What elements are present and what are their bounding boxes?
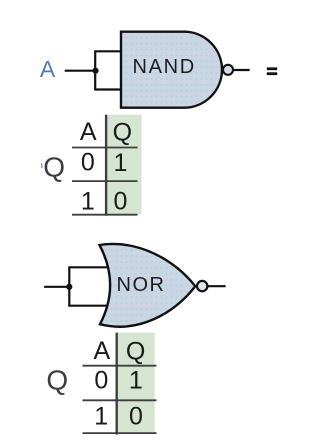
wire NOR bottom input [68, 305, 108, 307]
truth table NOR row1 A=0 [94, 367, 108, 395]
cursor artifact blue tick [41, 163, 43, 168]
truth table NAND vertical line [105, 115, 107, 216]
wire NOR output [207, 285, 225, 287]
svg-text:0: 0 [94, 367, 108, 395]
svg-text:Q: Q [46, 364, 68, 395]
svg-text:1: 1 [129, 367, 143, 395]
truth table NOR row2 Q=0 [129, 403, 143, 431]
truth table NOR bottom line [83, 432, 157, 434]
wire input A [65, 70, 97, 72]
truth table NOR vertical line [115, 333, 117, 435]
node Q label NAND [43, 151, 65, 182]
svg-text:1: 1 [114, 149, 128, 177]
NAND gate U1 [121, 32, 222, 108]
junction NOR input [66, 284, 72, 290]
truth table NOR header Q [126, 337, 145, 365]
svg-text:A: A [94, 337, 111, 365]
truth table NOR header line [83, 365, 157, 367]
truth table NAND header A [80, 118, 97, 146]
svg-text:1: 1 [94, 403, 108, 431]
svg-text:0: 0 [81, 149, 95, 177]
truth table NAND header line [72, 147, 138, 149]
truth table NAND bottom line [72, 214, 138, 216]
wire NOR branch vertical [68, 267, 70, 305]
truth table NAND middle line [72, 180, 138, 182]
truth table NAND row1 Q=1 [114, 149, 128, 177]
svg-text:NOR: NOR [117, 274, 166, 296]
svg-text:Q: Q [126, 337, 145, 365]
svg-text:NAND: NAND [132, 56, 195, 78]
svg-text:1: 1 [81, 187, 95, 215]
wire NAND branch vertical [94, 51, 96, 89]
truth table NAND row2 A=1 [81, 187, 95, 215]
truth table NOR row2 A=1 [94, 403, 108, 431]
equals sign [267, 67, 277, 75]
node Q label NOR [46, 364, 68, 395]
truth table NOR header A [94, 337, 111, 365]
truth table NOR Q column highlight [116, 333, 155, 434]
truth table NAND Q column highlight [105, 115, 142, 215]
svg-text:Q: Q [43, 151, 65, 182]
svg-text:Q: Q [113, 118, 132, 146]
svg-text:0: 0 [129, 403, 143, 431]
wire NAND top input [94, 50, 121, 52]
NOR gate U2 [100, 244, 196, 327]
svg-text:0: 0 [114, 188, 128, 216]
truth table NAND header Q [113, 118, 132, 146]
wire NAND bottom input [94, 88, 121, 90]
wire NAND output [233, 69, 249, 71]
truth table NOR row1 Q=1 [129, 367, 143, 395]
svg-text:A: A [40, 56, 56, 82]
svg-text:A: A [80, 118, 97, 146]
wire input NOR [44, 286, 70, 288]
node A label [40, 56, 56, 82]
truth table NOR middle line [83, 399, 157, 401]
junction NAND input [92, 68, 98, 74]
truth table NAND row1 A=0 [81, 149, 95, 177]
wire NOR top input [68, 266, 108, 268]
NOR output bubble [197, 281, 207, 291]
NAND output bubble [223, 65, 233, 75]
truth table NAND row2 Q=0 [114, 188, 128, 216]
